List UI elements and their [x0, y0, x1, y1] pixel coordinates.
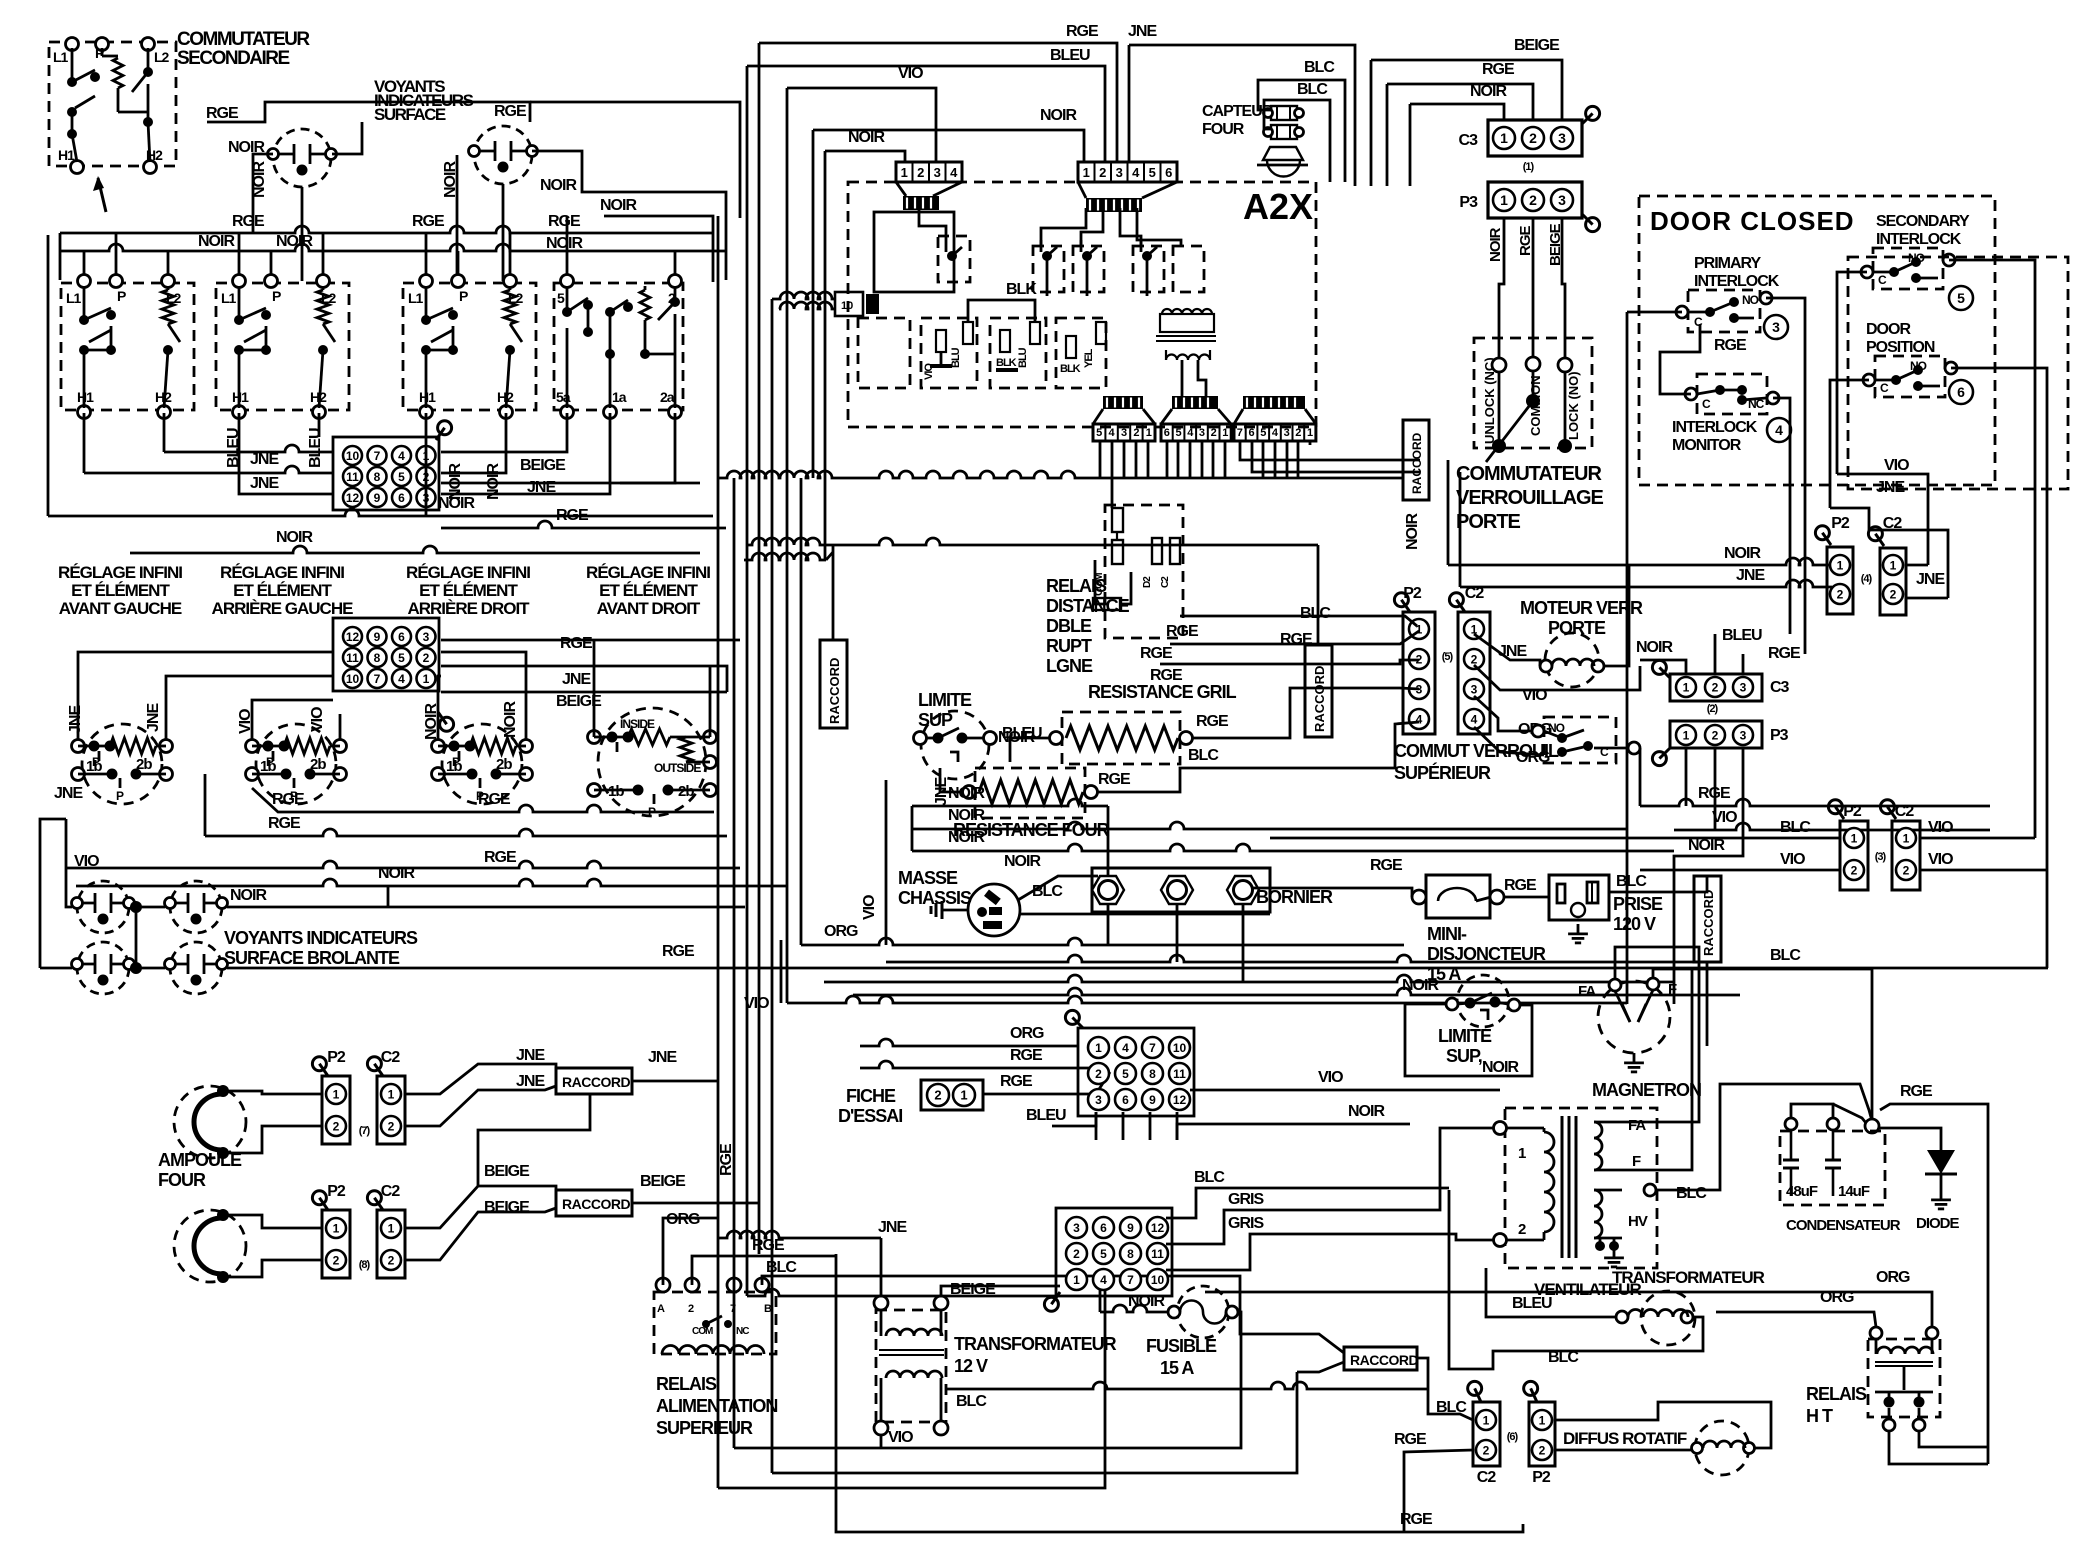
svg-text:BLU: BLU [950, 347, 962, 368]
wire blc to p2-3 [1270, 837, 1840, 840]
svg-text:1: 1 [1500, 192, 1508, 208]
svg-text:RÉGLAGE INFINI: RÉGLAGE INFINI [58, 563, 182, 582]
wire DS1 right [332, 122, 362, 154]
svg-text:6: 6 [398, 491, 405, 505]
mini disjoncteur [1426, 875, 1490, 918]
svg-text:F: F [1632, 1153, 1641, 1170]
svg-text:C2: C2 [381, 1049, 401, 1066]
lamp brulante 2 [170, 881, 222, 933]
connector C2-7 [377, 1076, 405, 1144]
svg-text:RGE: RGE [1517, 226, 1534, 257]
capacitor 2 [1832, 1130, 1835, 1160]
wire c2-3 pin1 right [1920, 837, 2035, 840]
wire left boundary drop [59, 233, 62, 280]
door position outer box [1848, 257, 2068, 489]
wire rge 1068 [860, 1061, 1096, 1068]
svg-text:MOTEUR VERR: MOTEUR VERR [1520, 598, 1643, 618]
svg-text:NOIR: NOIR [230, 887, 267, 904]
svg-text:RGE: RGE [484, 849, 517, 866]
lamp brulante 3 [77, 942, 129, 994]
wire JNE cn2 [441, 666, 727, 692]
wire f to transformer [1622, 969, 1692, 1170]
svg-text:4: 4 [398, 449, 405, 463]
relais HT box [1868, 1339, 1940, 1417]
cap BLK [1000, 330, 1010, 352]
svg-text:11: 11 [346, 651, 359, 665]
left vertical bus 801 [800, 478, 803, 945]
svg-text:1: 1 [1500, 130, 1508, 146]
wire NOIR DS1 [253, 154, 273, 232]
svg-text:1: 1 [1307, 427, 1313, 439]
svg-text:9: 9 [1149, 1093, 1156, 1107]
svg-text:DOOR CLOSED: DOOR CLOSED [1650, 206, 1855, 236]
wire NOIR vert mid [456, 155, 459, 281]
svg-text:(7): (7) [359, 1125, 371, 1137]
svg-text:4: 4 [1272, 427, 1279, 439]
wire noir right of cn5 [1177, 1124, 1410, 1140]
svg-text:C2: C2 [1477, 1469, 1497, 1486]
svg-text:2: 2 [1529, 130, 1537, 146]
svg-text:RÉGLAGE INFINI: RÉGLAGE INFINI [406, 563, 530, 582]
condensateur top wires [1791, 1104, 1833, 1122]
svg-text:GRIS: GRIS [1228, 1215, 1264, 1232]
wire limite sup box [1405, 1004, 1532, 1076]
svg-text:PORTE: PORTE [1548, 618, 1606, 638]
cap YEL [1096, 322, 1106, 344]
wire noir row 553 [130, 546, 700, 553]
connector P2-5 [1403, 612, 1435, 734]
svg-text:COMMUTATEUR: COMMUTATEUR [1456, 463, 1602, 485]
svg-text:4: 4 [1416, 712, 1423, 726]
svg-text:5: 5 [398, 470, 405, 484]
wire p2-6 pin2 [1556, 1449, 1691, 1452]
svg-text:12: 12 [346, 491, 360, 505]
svg-text:3: 3 [1740, 680, 1747, 694]
svg-text:P2: P2 [1532, 1469, 1551, 1486]
wire orange bus 945 [801, 938, 1404, 945]
wire trafo jne [880, 1238, 883, 1296]
wire p3 pin drops [1499, 218, 1504, 358]
limite sup 2 [1457, 975, 1509, 1027]
door closed box [1639, 196, 1995, 485]
svg-text:D2: D2 [1142, 576, 1153, 588]
svg-text:C3: C3 [1459, 132, 1479, 149]
wire rge interlock loop [1660, 324, 1700, 394]
svg-text:12: 12 [1173, 1093, 1187, 1107]
wire RGE lamp top bus [207, 102, 530, 122]
svg-text:3: 3 [1558, 192, 1566, 208]
left vertical bus 718 [717, 216, 720, 1488]
svg-text:RGE: RGE [478, 791, 511, 808]
svg-text:BORNIER: BORNIER [1256, 887, 1333, 907]
wire raccord right down [1706, 962, 1709, 1046]
wire rge bottom long [836, 1254, 1523, 1532]
svg-text:PRIMARY: PRIMARY [1694, 255, 1762, 272]
svg-text:1b: 1b [260, 758, 276, 775]
svg-text:5a: 5a [556, 389, 571, 405]
plug 2pin inside left [835, 292, 863, 316]
commutateur verrouillage porte box [1474, 338, 1592, 448]
svg-text:BLK: BLK [996, 357, 1017, 369]
wire jne door [1830, 508, 1948, 598]
svg-text:VERROUILLAGE: VERROUILLAGE [1456, 487, 1604, 509]
wire disjoncteur rge [1504, 896, 1549, 899]
svg-text:RGE: RGE [1010, 1047, 1043, 1064]
wire transformer down [1181, 360, 1184, 396]
svg-text:NOIR: NOIR [540, 177, 577, 194]
svg-text:ET ÉLÉMENT: ET ÉLÉMENT [233, 581, 332, 600]
svg-text:5: 5 [1096, 427, 1102, 439]
svg-text:2: 2 [388, 1119, 395, 1133]
svg-text:RACCORD: RACCORD [562, 1074, 630, 1090]
svg-text:RGE: RGE [272, 791, 305, 808]
svg-text:MAGNETRON: MAGNETRON [1592, 1080, 1701, 1100]
wire C2-8 to raccord beige [405, 1186, 556, 1228]
svg-text:5: 5 [1149, 165, 1156, 180]
wire lamps noir right [227, 906, 745, 909]
svg-text:ET ÉLÉMENT: ET ÉLÉMENT [419, 581, 518, 600]
wire c2-4 pin1 up [1906, 564, 1928, 567]
svg-text:NOIR: NOIR [1688, 837, 1725, 854]
limite sup switch [921, 711, 989, 779]
svg-text:1b: 1b [446, 758, 462, 775]
svg-text:3: 3 [1199, 427, 1205, 439]
relay box upper left [874, 212, 954, 292]
wire a2x bus 478 [719, 471, 1403, 478]
svg-text:4: 4 [1132, 165, 1140, 180]
raccord JNE [556, 1068, 632, 1094]
wire cn5 drops [1095, 1112, 1098, 1140]
svg-text:C2: C2 [381, 1183, 401, 1200]
svg-text:4: 4 [1187, 427, 1194, 439]
svg-text:FICHE: FICHE [846, 1086, 896, 1106]
svg-text:FOUR: FOUR [1202, 121, 1245, 138]
svg-text:2: 2 [333, 1119, 340, 1133]
svg-text:PORTE: PORTE [1456, 511, 1521, 533]
wire raccord jne out [632, 1080, 718, 1083]
svg-text:LIMITE: LIMITE [1438, 1026, 1492, 1046]
svg-text:C3: C3 [1770, 679, 1790, 696]
svg-text:ORG: ORG [1876, 1269, 1910, 1286]
connector CN1 [333, 437, 439, 510]
svg-text:NOIR: NOIR [1348, 1103, 1385, 1120]
transformateur secondary FA F [1594, 1122, 1602, 1170]
svg-text:1a: 1a [612, 389, 627, 405]
svg-text:F: F [1668, 981, 1677, 998]
svg-text:2: 2 [1099, 165, 1106, 180]
svg-text:11: 11 [1173, 1067, 1186, 1081]
svg-text:H1: H1 [77, 389, 94, 405]
svg-text:BLC: BLC [1188, 747, 1219, 764]
svg-text:RACCORD: RACCORD [1312, 666, 1327, 732]
wire gril left [1010, 738, 1050, 762]
wire c2-5 to moteur [1474, 634, 1540, 666]
svg-text:INSIDE: INSIDE [620, 717, 655, 731]
svg-text:1: 1 [1518, 1145, 1526, 1162]
svg-text:7: 7 [1149, 1041, 1156, 1055]
svg-text:RGE: RGE [206, 105, 239, 122]
connector C3 top [1488, 120, 1582, 156]
svg-text:BLK: BLK [1060, 363, 1081, 375]
wire capteur blc2 [1264, 100, 1330, 182]
svg-text:1: 1 [388, 1087, 395, 1101]
svg-text:C2: C2 [1883, 515, 1903, 532]
wire bleu long [747, 66, 1105, 162]
switch SW2 avant gauche [61, 283, 194, 410]
primary interlock switch [1688, 290, 1760, 332]
svg-text:9: 9 [374, 491, 381, 505]
svg-text:2a: 2a [660, 389, 675, 405]
svg-text:NOIR: NOIR [276, 529, 313, 546]
wire noir bus to p2-4 [1448, 558, 1840, 565]
svg-text:VIO: VIO [861, 895, 878, 920]
indicator lamp DS1 [273, 129, 331, 187]
transformateur 12V [876, 1310, 946, 1422]
svg-text:1: 1 [333, 1221, 340, 1235]
wire BEIGE right [441, 482, 700, 485]
svg-text:ARRIÈRE GAUCHE: ARRIÈRE GAUCHE [212, 599, 354, 618]
svg-text:RGE: RGE [1000, 1073, 1033, 1090]
svg-text:RGE: RGE [662, 943, 695, 960]
wire rge p3 bus [1640, 799, 1990, 806]
arrow to SW1 [98, 178, 106, 212]
wire noir bus 2 [912, 822, 1627, 829]
svg-text:TRANSFORMATEUR: TRANSFORMATEUR [954, 1334, 1117, 1354]
raccord vertical right [1694, 876, 1721, 962]
svg-text:P2: P2 [1831, 515, 1850, 532]
transformer core [1561, 1116, 1564, 1258]
wire left boundary [47, 235, 50, 516]
svg-text:BEIGE: BEIGE [484, 1199, 530, 1216]
svg-text:1: 1 [901, 165, 908, 180]
svg-text:ORG: ORG [1010, 1025, 1044, 1042]
svg-text:FA: FA [1628, 1117, 1646, 1134]
svg-text:5: 5 [1122, 1067, 1129, 1081]
svg-text:RGE: RGE [560, 635, 593, 652]
wire trafo beige [941, 1286, 1060, 1296]
svg-text:RGE: RGE [268, 815, 301, 832]
transformer on board [1160, 314, 1214, 332]
wire bus 545 [747, 538, 1318, 545]
svg-text:BEIGE: BEIGE [520, 457, 566, 474]
wire strip2 drops [1166, 441, 1169, 478]
svg-text:NOIR: NOIR [1004, 853, 1041, 870]
transformateur secondary HV [1594, 1190, 1602, 1238]
svg-text:1b: 1b [608, 783, 624, 800]
element heater arriere gauche [256, 724, 336, 804]
wire bus NOIR row2 [60, 244, 726, 251]
svg-text:VIO: VIO [898, 65, 923, 82]
svg-text:VIO: VIO [1884, 457, 1909, 474]
svg-text:6: 6 [1248, 427, 1254, 439]
svg-text:1: 1 [1837, 558, 1844, 572]
wire NOIR long right [604, 216, 713, 282]
svg-text:VIO: VIO [309, 707, 326, 732]
wire noir fusible [1100, 1305, 1168, 1312]
svg-text:DIODE: DIODE [1916, 1215, 1960, 1232]
svg-text:RGE: RGE [1370, 857, 1403, 874]
svg-text:C: C [1702, 397, 1711, 411]
svg-text:COM: COM [692, 1326, 713, 1337]
svg-text:(1): (1) [1523, 161, 1535, 173]
svg-text:2: 2 [1073, 1247, 1080, 1261]
svg-text:RGE: RGE [1482, 61, 1515, 78]
svg-text:BLEU: BLEU [1050, 47, 1090, 64]
wire rge fiche [983, 1072, 1110, 1094]
magnetron [1598, 981, 1670, 1053]
svg-text:L1: L1 [221, 290, 237, 306]
svg-text:FOUR: FOUR [158, 1170, 206, 1190]
svg-text:NOIR: NOIR [1404, 513, 1421, 550]
wire raccord1 up [832, 545, 835, 640]
svg-text:NOIR: NOIR [600, 197, 637, 214]
svg-text:H1: H1 [232, 389, 249, 405]
svg-text:DOOR: DOOR [1866, 321, 1911, 338]
svg-text:JNE: JNE [516, 1047, 545, 1064]
svg-text:5: 5 [1175, 427, 1181, 439]
svg-text:2: 2 [1712, 680, 1719, 694]
wire noir to c3 mid [1640, 660, 1686, 674]
svg-text:4: 4 [1122, 1041, 1129, 1055]
wire bleu to c3 mid [1714, 634, 1717, 674]
wire cn6 gris1 [1166, 1128, 1494, 1244]
svg-text:9: 9 [1127, 1221, 1134, 1235]
wire vio bus 1003 [787, 996, 1627, 1003]
svg-text:14uF: 14uF [1838, 1183, 1870, 1200]
svg-text:2: 2 [1518, 1221, 1526, 1238]
svg-text:2: 2 [388, 1253, 395, 1267]
switch SW1 commutateur secondaire [49, 42, 176, 166]
wire C2-7 to raccord jne [405, 1064, 556, 1094]
svg-text:JNE: JNE [1498, 643, 1527, 660]
svg-text:COMMUTATEUR: COMMUTATEUR [177, 29, 310, 50]
svg-text:NOIR: NOIR [1482, 1059, 1519, 1076]
svg-text:NOIR: NOIR [546, 235, 583, 252]
svg-text:BLC: BLC [1616, 873, 1647, 890]
svg-text:1: 1 [1683, 680, 1690, 694]
svg-text:7: 7 [374, 449, 381, 463]
wire raccord beige out [632, 1202, 759, 1205]
wire vio door [1837, 474, 1928, 565]
bornier block [1092, 868, 1270, 912]
wire relais ht bottom left [1889, 1431, 1988, 1464]
wire raccord bottom right [1417, 1358, 1428, 1389]
connector C2-4 [1880, 548, 1906, 615]
svg-text:1: 1 [1095, 1041, 1102, 1055]
svg-text:SUPERIEUR: SUPERIEUR [656, 1418, 753, 1438]
connector strip A2X bottom 3 [1243, 396, 1305, 409]
svg-text:2: 2 [1483, 1443, 1490, 1457]
svg-text:11: 11 [1151, 1247, 1164, 1261]
capacitor 1 [1790, 1130, 1793, 1160]
left vertical bus 772 lower [771, 478, 774, 1473]
wire relais top right [1180, 616, 1417, 626]
svg-text:1b: 1b [86, 758, 102, 775]
wire noir bus stub [1447, 460, 1450, 565]
svg-text:(5): (5) [1442, 651, 1454, 663]
lamp brulante 1 [77, 881, 129, 933]
svg-text:RESISTANCE GRIL: RESISTANCE GRIL [1088, 682, 1237, 702]
svg-text:VOYANTS INDICATEURS: VOYANTS INDICATEURS [224, 928, 418, 948]
svg-text:RGE: RGE [412, 213, 445, 230]
svg-text:(6): (6) [1507, 1431, 1519, 1443]
door position switch [1875, 356, 1945, 397]
svg-text:BLC: BLC [1297, 81, 1328, 98]
wire drops to switch boxes [83, 251, 86, 281]
wire RGE top to DS2 [530, 102, 740, 218]
wire ventilateur bleu [1486, 1268, 1616, 1317]
svg-text:4: 4 [398, 672, 405, 686]
wire jne bus to p2-4 [1460, 580, 1832, 587]
svg-text:10: 10 [346, 449, 360, 463]
wires cn4 to relays [1041, 208, 1086, 246]
wire lamps rge long [227, 967, 2048, 970]
svg-text:2: 2 [1295, 427, 1301, 439]
wire bornier right rge [1253, 888, 1412, 897]
wire no5 right [1949, 260, 2035, 838]
svg-text:8: 8 [1127, 1247, 1134, 1261]
wire c2-5 org2 [1474, 727, 1544, 755]
wire jne top [1129, 45, 1355, 186]
svg-text:P2: P2 [1843, 803, 1862, 820]
wire no6 right [1951, 368, 2047, 968]
svg-text:1: 1 [1083, 165, 1090, 180]
wire p2-6 to diffus [1556, 1402, 1771, 1448]
svg-text:(2): (2) [1707, 703, 1719, 715]
svg-text:ET ÉLÉMENT: ET ÉLÉMENT [71, 581, 170, 600]
svg-text:RGE: RGE [1714, 337, 1747, 354]
svg-text:1: 1 [388, 1221, 395, 1235]
svg-text:BEIGE: BEIGE [484, 1163, 530, 1180]
svg-text:BLC: BLC [1676, 1185, 1707, 1202]
svg-text:L1: L1 [66, 290, 82, 306]
svg-text:NO: NO [1742, 293, 1759, 307]
wire RGE right row [441, 521, 726, 528]
wire DS2 NOIR right [532, 151, 726, 280]
wire secondary C left [1837, 272, 1867, 474]
svg-text:7: 7 [1127, 1273, 1134, 1287]
connector strip A2X bottom 1 [1103, 396, 1143, 409]
wire strip3 drops [1240, 441, 1420, 460]
svg-text:BLC: BLC [1300, 605, 1331, 622]
svg-text:INTERLOCK: INTERLOCK [1672, 419, 1758, 436]
svg-text:MINI-: MINI- [1427, 924, 1467, 944]
svg-text:VIO: VIO [744, 995, 769, 1012]
svg-text:VIO: VIO [1780, 851, 1805, 868]
svg-text:ARRIÈRE DROIT: ARRIÈRE DROIT [407, 599, 530, 618]
connector P2-4 [1827, 547, 1853, 614]
svg-text:P3: P3 [1770, 727, 1789, 744]
svg-text:5: 5 [1260, 427, 1266, 439]
svg-text:SUP,: SUP, [1446, 1046, 1482, 1066]
relais distance box [1105, 505, 1183, 638]
svg-text:1: 1 [1539, 1413, 1546, 1427]
svg-text:1: 1 [1073, 1273, 1080, 1287]
svg-text:BLEU: BLEU [1512, 1295, 1552, 1312]
svg-text:SECONDAIRE: SECONDAIRE [177, 48, 290, 69]
svg-text:JNE: JNE [67, 705, 84, 734]
svg-text:H T: H T [1806, 1406, 1833, 1426]
relay contacts row [1033, 246, 1064, 292]
raccord vertical 1 [820, 640, 847, 728]
raccord vertical mid [1305, 645, 1332, 737]
component dashed boxes row [858, 318, 910, 388]
condensateur box [1780, 1131, 1885, 1205]
wire magnetron fa [1615, 947, 1699, 1122]
wire prise blc [1609, 876, 1707, 892]
svg-text:L1: L1 [408, 290, 424, 306]
svg-text:12: 12 [1151, 1221, 1165, 1235]
